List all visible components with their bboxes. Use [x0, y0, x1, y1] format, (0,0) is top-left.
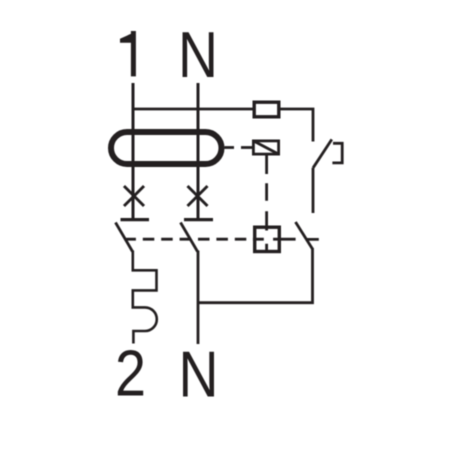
- svg-text:N: N: [179, 337, 219, 410]
- svg-text:N: N: [178, 18, 218, 91]
- svg-text:2: 2: [115, 336, 146, 409]
